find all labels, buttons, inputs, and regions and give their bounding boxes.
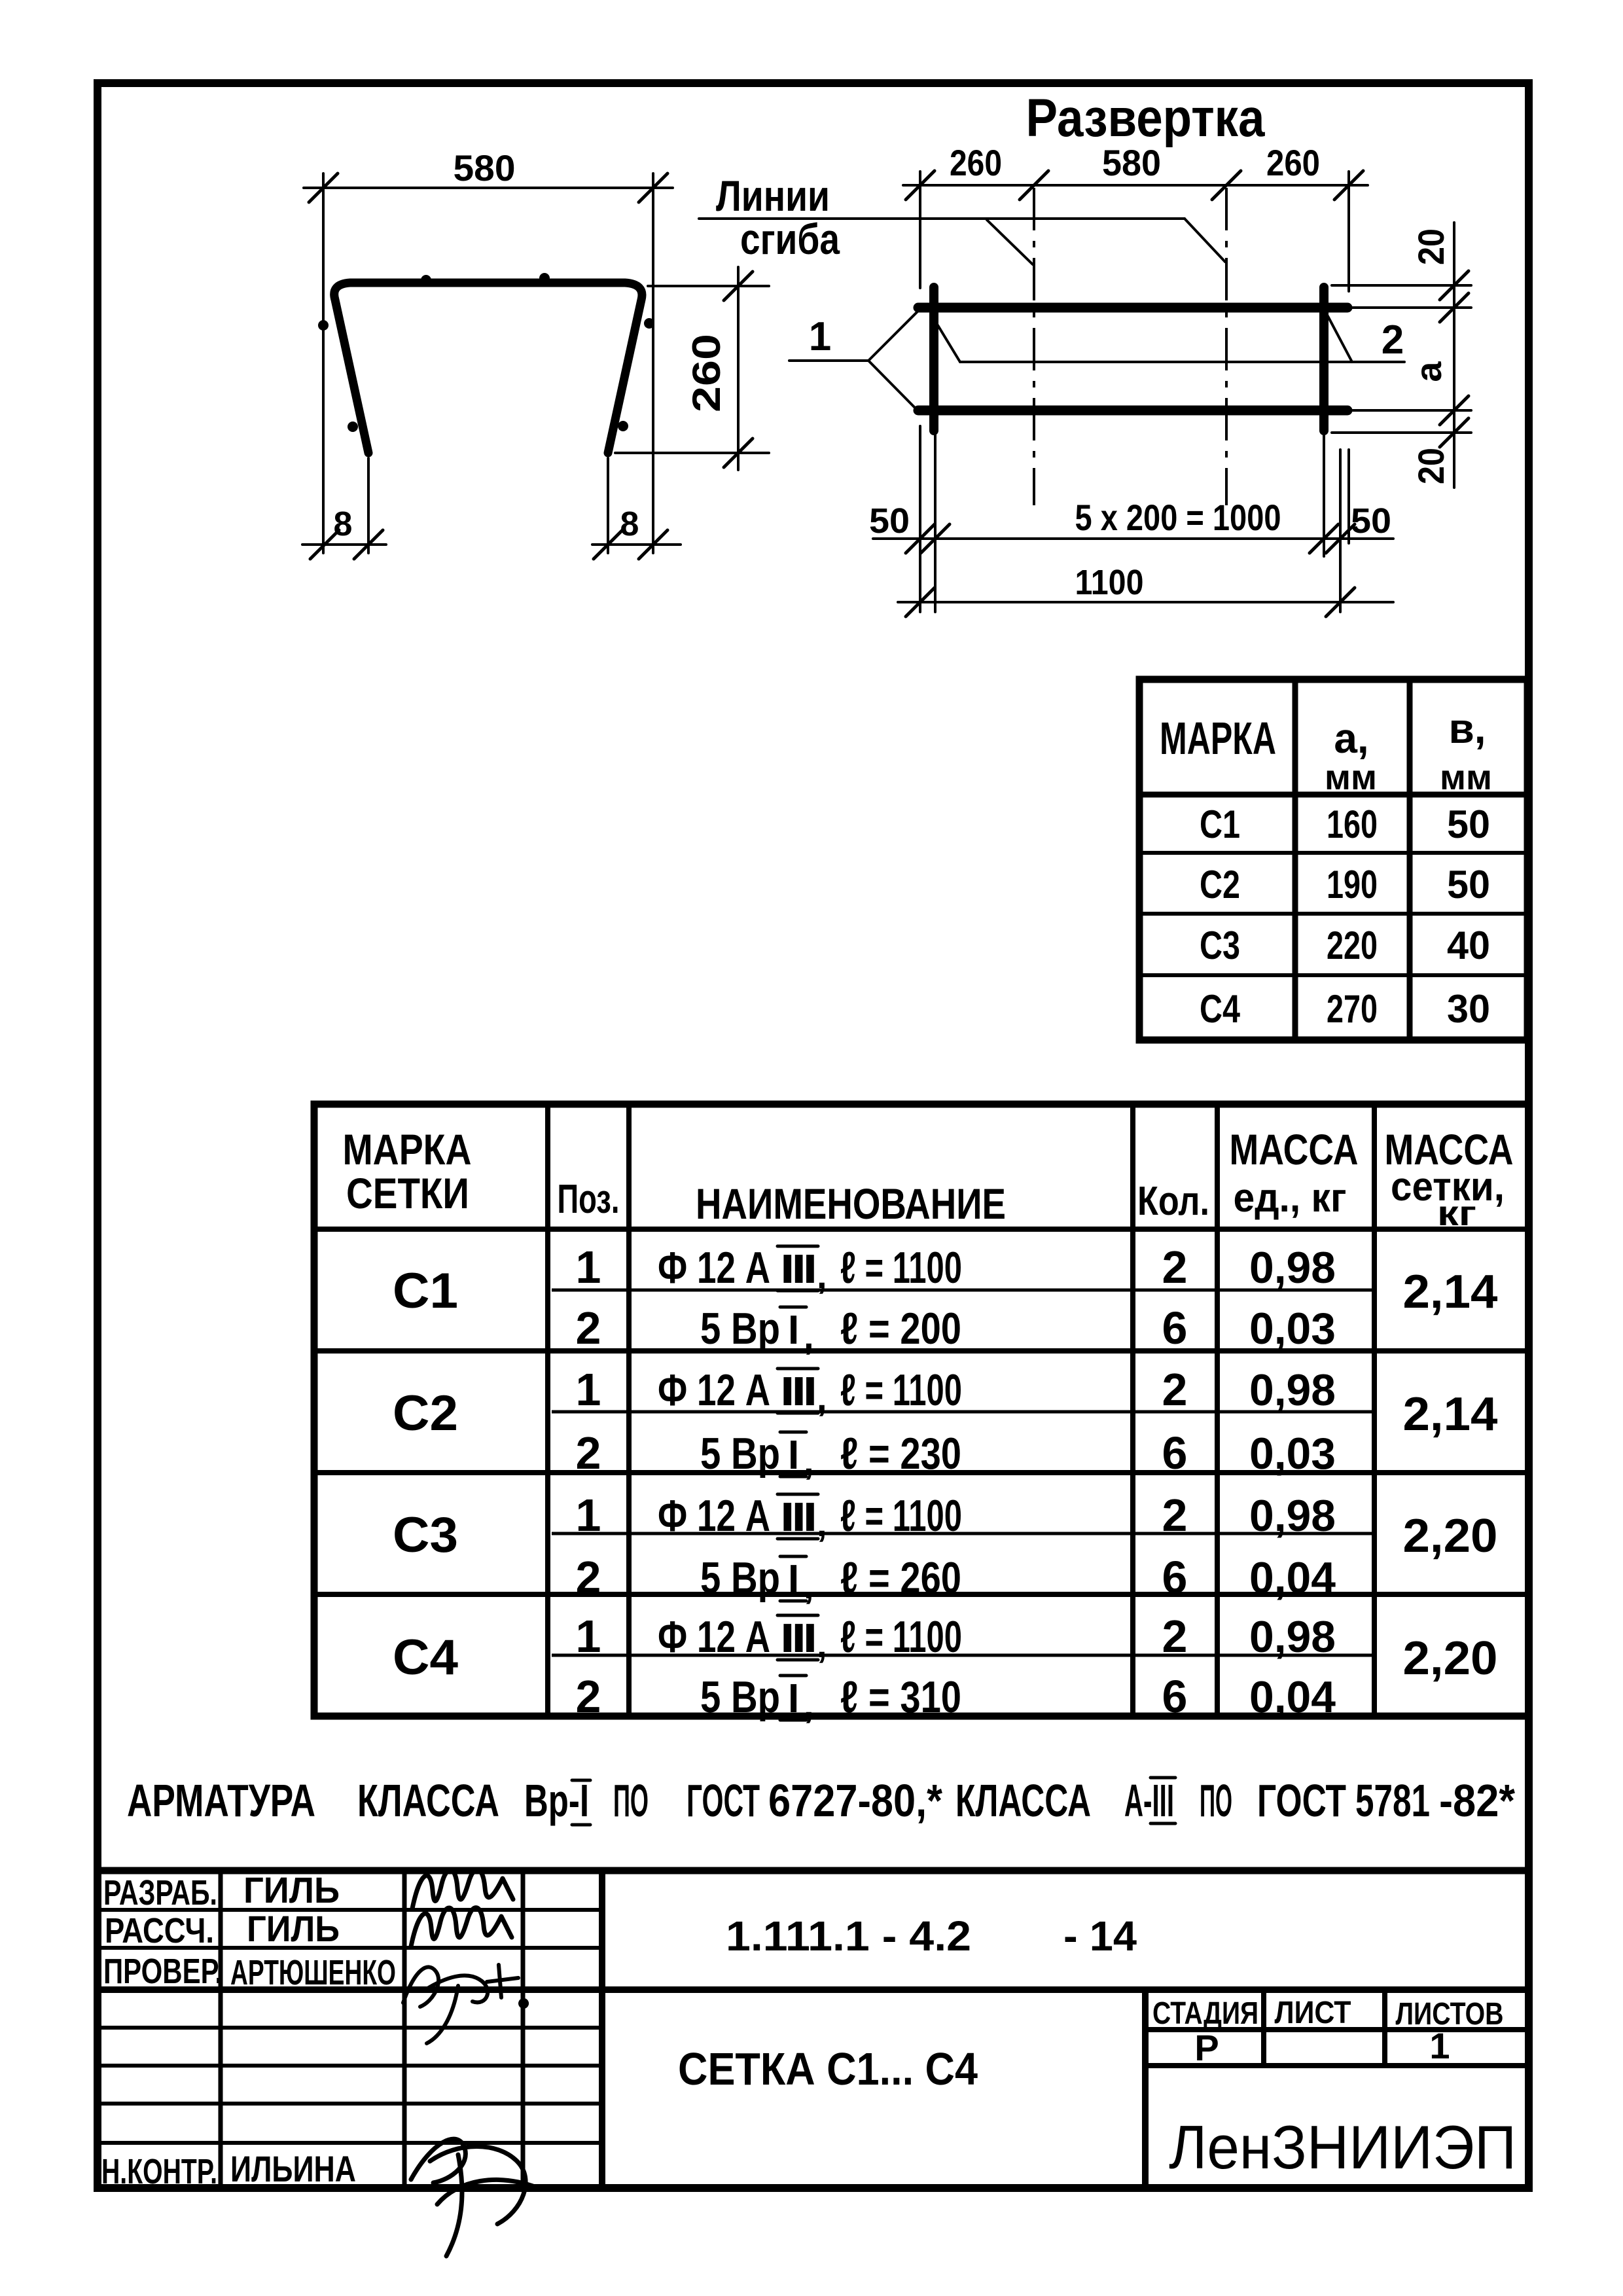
svg-text:5 х 200 = 1000: 5 х 200 = 1000 [1075,497,1281,538]
svg-text:0,03: 0,03 [1249,1304,1336,1354]
svg-text:А-III: А-III [1124,1775,1174,1826]
svg-text:Развертка: Развертка [1026,88,1266,148]
svg-text:МАССА: МАССА [1230,1125,1359,1174]
svg-text:С3: С3 [1200,924,1240,967]
svg-text:6: 6 [1162,1552,1188,1603]
svg-text:ℓ = 260: ℓ = 260 [840,1553,961,1603]
svg-text:260: 260 [1266,142,1320,183]
svg-text:0,03: 0,03 [1249,1429,1336,1479]
svg-text:20: 20 [1410,448,1452,484]
svg-text:2: 2 [1162,1242,1188,1293]
svg-text:2: 2 [1162,1490,1188,1541]
svg-text:2: 2 [576,1427,601,1479]
svg-text:ПО: ПО [1200,1775,1232,1826]
svg-text:ℓ = 310: ℓ = 310 [840,1672,961,1722]
svg-text:ЛенЗНИИЭП: ЛенЗНИИЭП [1169,2113,1516,2181]
svg-text:2,14: 2,14 [1403,1266,1498,1318]
svg-text:ГИЛЬ: ГИЛЬ [243,1869,340,1910]
svg-text:РАССЧ.: РАССЧ. [105,1911,214,1950]
svg-text:5781: 5781 [1355,1775,1430,1826]
svg-text:5 Вр: 5 Вр [700,1304,780,1354]
svg-text:ℓ = 1100: ℓ = 1100 [840,1612,962,1662]
svg-text:2,14: 2,14 [1403,1388,1498,1441]
svg-text:III: III [780,1369,815,1414]
svg-text:Линии: Линии [716,171,830,220]
svg-text:20: 20 [1410,228,1452,265]
svg-text:1: 1 [576,1611,601,1662]
svg-text:260: 260 [685,334,728,412]
svg-text:Ф 12 А: Ф 12 А [658,1612,770,1662]
svg-text:ед., кг: ед., кг [1234,1175,1347,1221]
svg-text:0,98: 0,98 [1249,1243,1336,1293]
svg-text:сгиба: сгиба [740,215,840,263]
svg-text:0,98: 0,98 [1249,1365,1336,1415]
svg-text:8: 8 [334,505,353,543]
svg-text:0,98: 0,98 [1249,1612,1336,1662]
svg-text:5 Вр: 5 Вр [700,1672,780,1722]
svg-text:Поз.: Поз. [558,1177,620,1222]
svg-text:СТАДИЯ: СТАДИЯ [1152,1996,1258,2031]
svg-text:КЛАССА: КЛАССА [357,1775,499,1826]
svg-text:5 Вр: 5 Вр [700,1429,780,1479]
svg-text:50: 50 [1447,802,1490,846]
svg-text:Н.КОНТР.: Н.КОНТР. [101,2152,217,2191]
svg-text:МАРКА: МАРКА [1160,713,1276,764]
svg-text:СЕТКИ: СЕТКИ [346,1169,469,1217]
svg-text:С4: С4 [1200,987,1241,1031]
svg-text:АРТЮШЕНКО: АРТЮШЕНКО [230,1953,396,1992]
svg-text:1.111.1 - 4.2: 1.111.1 - 4.2 [726,1912,971,1960]
svg-text:260: 260 [950,142,1002,183]
svg-text:30: 30 [1447,987,1490,1031]
svg-text:1: 1 [576,1490,601,1541]
svg-text:2,20: 2,20 [1403,1510,1498,1562]
svg-text:50: 50 [869,501,910,541]
svg-text:2,20: 2,20 [1403,1632,1498,1685]
svg-text:кг: кг [1437,1194,1476,1233]
svg-text:2: 2 [1382,317,1404,363]
svg-text:220: 220 [1327,924,1378,967]
svg-text:ГОСТ: ГОСТ [1257,1775,1346,1826]
svg-text:III: III [780,1495,815,1540]
svg-text:III: III [780,1616,815,1661]
svg-text:580: 580 [454,147,516,188]
svg-text:6: 6 [1162,1427,1188,1479]
svg-text:АРМАТУРА: АРМАТУРА [127,1775,315,1826]
svg-text:6: 6 [1162,1671,1188,1722]
svg-text:ПРОВЕР.: ПРОВЕР. [103,1952,223,1991]
svg-text:ГОСТ: ГОСТ [687,1775,760,1826]
svg-text:ℓ = 200: ℓ = 200 [840,1304,961,1354]
svg-text:Ф 12 А: Ф 12 А [658,1365,770,1415]
svg-text:ПО: ПО [613,1775,649,1826]
svg-text:5 Вр: 5 Вр [700,1553,780,1603]
svg-text:Кол.: Кол. [1137,1179,1209,1224]
svg-text:0,04: 0,04 [1249,1553,1336,1603]
svg-text:50: 50 [1351,501,1391,541]
svg-text:- 14: - 14 [1063,1912,1137,1960]
svg-text:190: 190 [1327,863,1378,906]
svg-text:ℓ = 1100: ℓ = 1100 [840,1365,962,1415]
svg-text:2: 2 [1162,1364,1188,1415]
svg-text:0,04: 0,04 [1249,1672,1336,1722]
svg-text:2: 2 [576,1552,601,1603]
svg-text:Ф 12 А: Ф 12 А [658,1243,770,1293]
svg-text:160: 160 [1327,802,1378,846]
svg-text:НАИМЕНОВАНИЕ: НАИМЕНОВАНИЕ [696,1179,1006,1228]
svg-text:I: I [788,1557,799,1602]
svg-text:1: 1 [576,1364,601,1415]
svg-text:I: I [788,1308,799,1353]
svg-text:С1: С1 [1200,802,1240,846]
svg-text:С1: С1 [393,1263,458,1319]
svg-text:мм: мм [1325,758,1377,797]
svg-text:50: 50 [1447,863,1490,906]
svg-text:Вр-I: Вр-I [524,1775,589,1826]
svg-text:6727-80,*: 6727-80,* [768,1775,943,1826]
svg-text:270: 270 [1327,987,1378,1031]
svg-text:Ф 12 А: Ф 12 А [658,1491,770,1541]
svg-text:ℓ = 230: ℓ = 230 [840,1429,961,1479]
svg-text:в,: в, [1448,705,1486,752]
svg-text:ℓ = 1100: ℓ = 1100 [840,1243,962,1293]
svg-text:ℓ = 1100: ℓ = 1100 [840,1491,962,1541]
svg-text:580: 580 [1102,142,1161,183]
svg-text:I: I [788,1433,799,1478]
svg-text:2: 2 [1162,1611,1188,1662]
svg-text:0,98: 0,98 [1249,1491,1336,1541]
svg-text:ГИЛЬ: ГИЛЬ [247,1908,340,1949]
svg-text:СЕТКА С1... С4: СЕТКА С1... С4 [678,2043,978,2094]
svg-text:мм: мм [1440,758,1492,797]
svg-text:ИЛЬИНА: ИЛЬИНА [230,2148,356,2189]
svg-text:8: 8 [620,505,639,543]
svg-text:6: 6 [1162,1302,1188,1354]
svg-text:-82*: -82* [1439,1775,1516,1826]
svg-text:а: а [1408,361,1449,382]
svg-text:2: 2 [576,1302,601,1354]
svg-text:I: I [788,1676,799,1721]
svg-text:С3: С3 [393,1507,458,1563]
svg-text:Р: Р [1194,2027,1219,2068]
svg-text:ЛИСТ: ЛИСТ [1275,1996,1351,2030]
svg-text:1: 1 [809,314,831,359]
svg-text:а,: а, [1334,715,1368,762]
svg-text:РАЗРАБ.: РАЗРАБ. [103,1873,217,1912]
svg-text:III: III [780,1247,815,1292]
svg-text:С2: С2 [393,1386,458,1441]
svg-text:1100: 1100 [1075,563,1144,602]
svg-text:40: 40 [1447,924,1490,967]
svg-text:С2: С2 [1200,863,1240,906]
svg-text:МАРКА: МАРКА [343,1125,472,1174]
svg-text:2: 2 [576,1671,601,1722]
svg-text:1: 1 [1429,2025,1450,2066]
svg-text:КЛАССА: КЛАССА [955,1775,1091,1826]
svg-text:1: 1 [576,1242,601,1293]
svg-text:С4: С4 [393,1630,458,1685]
